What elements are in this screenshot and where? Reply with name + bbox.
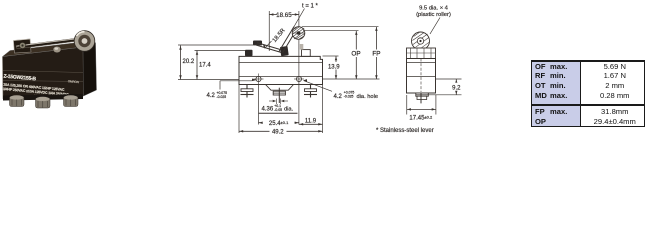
photo: terminal screw right: [64, 97, 79, 107]
photo: case seam lines: [3, 71, 83, 73]
dimension FP: [302, 26, 379, 28]
dimension 9.2: [436, 78, 462, 80]
svg-text:-0.05: -0.05: [274, 108, 282, 112]
photo: micro switch product photo: [2, 31, 97, 108]
front view: roller: [292, 27, 305, 40]
front view: left mounting hole: [256, 76, 261, 81]
front view: plunger boss: [302, 50, 311, 57]
side view: bottom terminal screw: [416, 93, 429, 96]
front view: lever hinge clamp on case: [245, 50, 253, 56]
svg-text:20.2: 20.2: [183, 59, 195, 65]
dimension 18.65: [268, 11, 270, 51]
photo: body top face: [3, 41, 91, 57]
svg-text:17.4: 17.4: [199, 62, 211, 68]
front view: plunger pin: [300, 44, 304, 50]
photo: body front face: [3, 47, 84, 99]
photo: hinge screw: [20, 43, 26, 49]
side view: label leader: [430, 18, 440, 35]
photo: body right side face: [83, 43, 97, 97]
side view: case seam lines: [407, 62, 436, 64]
front view: lever pivot block: [253, 41, 262, 46]
photo: plunger cap: [53, 46, 61, 52]
svg-text:(plastic roller): (plastic roller): [416, 12, 451, 18]
dimension 17.45: [406, 95, 408, 115]
front view: terminal screw right: [310, 85, 312, 98]
svg-text:t = 1 *: t = 1 *: [302, 3, 319, 9]
svg-text:dia. hole: dia. hole: [357, 94, 379, 100]
svg-text:49.2: 49.2: [272, 130, 284, 136]
photo: terminal screw left: [10, 97, 25, 107]
front view: 25.4 left extension line: [258, 85, 260, 125]
photo: terminal screw middle: [36, 98, 51, 108]
svg-text:9.5 dia. × 4: 9.5 dia. × 4: [419, 6, 449, 12]
photo: roller: [74, 31, 95, 52]
datum extension line right: [323, 78, 380, 80]
photo: lever arm: [16, 38, 77, 49]
svg-text:18.65: 18.65: [276, 12, 292, 19]
svg-text:FP: FP: [372, 51, 380, 58]
side view: roller: [412, 32, 430, 50]
svg-text:-0.025: -0.025: [344, 95, 354, 99]
front view: lever fork pad: [280, 46, 289, 56]
dimension 11.9: [322, 85, 324, 133]
front view: right mounting hole: [296, 76, 301, 81]
photo: terminal base: [3, 94, 83, 101]
front view: lever arm segment A: [256, 45, 283, 53]
characteristics table: [531, 60, 645, 128]
dimension 49.2: [238, 85, 240, 133]
front view: lever fork straps to roller axle: [279, 27, 294, 52]
extension line under 4.36 label: [259, 112, 298, 114]
dimension 20.2: [178, 44, 262, 46]
front view: case seam lower: [239, 76, 323, 78]
side view: lever clamp block: [407, 48, 436, 59]
photo: model number text: [2, 74, 79, 102]
dimension 13.9: [323, 55, 339, 57]
svg-text:4.2: 4.2: [207, 93, 216, 99]
dimension 25.4: [259, 122, 299, 124]
front view: case seam upper: [239, 62, 323, 64]
front view: plunger centerline / 18.65 right extension: [298, 11, 300, 125]
side view: case centerline: [420, 59, 422, 93]
front view: terminal screw left: [246, 85, 248, 98]
front view: middle recess and terminal screw: [266, 85, 294, 91]
svg-text:-0.025: -0.025: [217, 95, 227, 99]
side view: case outline: [407, 59, 436, 94]
label 4.36 dia plunger hole: [275, 99, 277, 105]
svg-text:17.45±0.2: 17.45±0.2: [409, 115, 433, 122]
svg-text:4.2: 4.2: [334, 94, 343, 100]
svg-text:dia.: dia.: [284, 107, 294, 113]
svg-text:9.2: 9.2: [452, 85, 461, 91]
dimension OP: [303, 30, 359, 32]
svg-text:OP: OP: [351, 51, 360, 58]
svg-text:11.9: 11.9: [305, 118, 317, 124]
label 4.2 dia hole right with leader: [304, 81, 332, 92]
dimension 17.4: [195, 50, 247, 52]
svg-text:* Stainless-steel lever: * Stainless-steel lever: [376, 128, 434, 134]
photo: hinge bracket: [14, 39, 32, 53]
svg-text:4.36: 4.36: [262, 107, 274, 113]
datum extension line left: [178, 79, 239, 81]
front view: switch body outline: [239, 56, 323, 84]
svg-text:13.9: 13.9: [328, 64, 340, 70]
